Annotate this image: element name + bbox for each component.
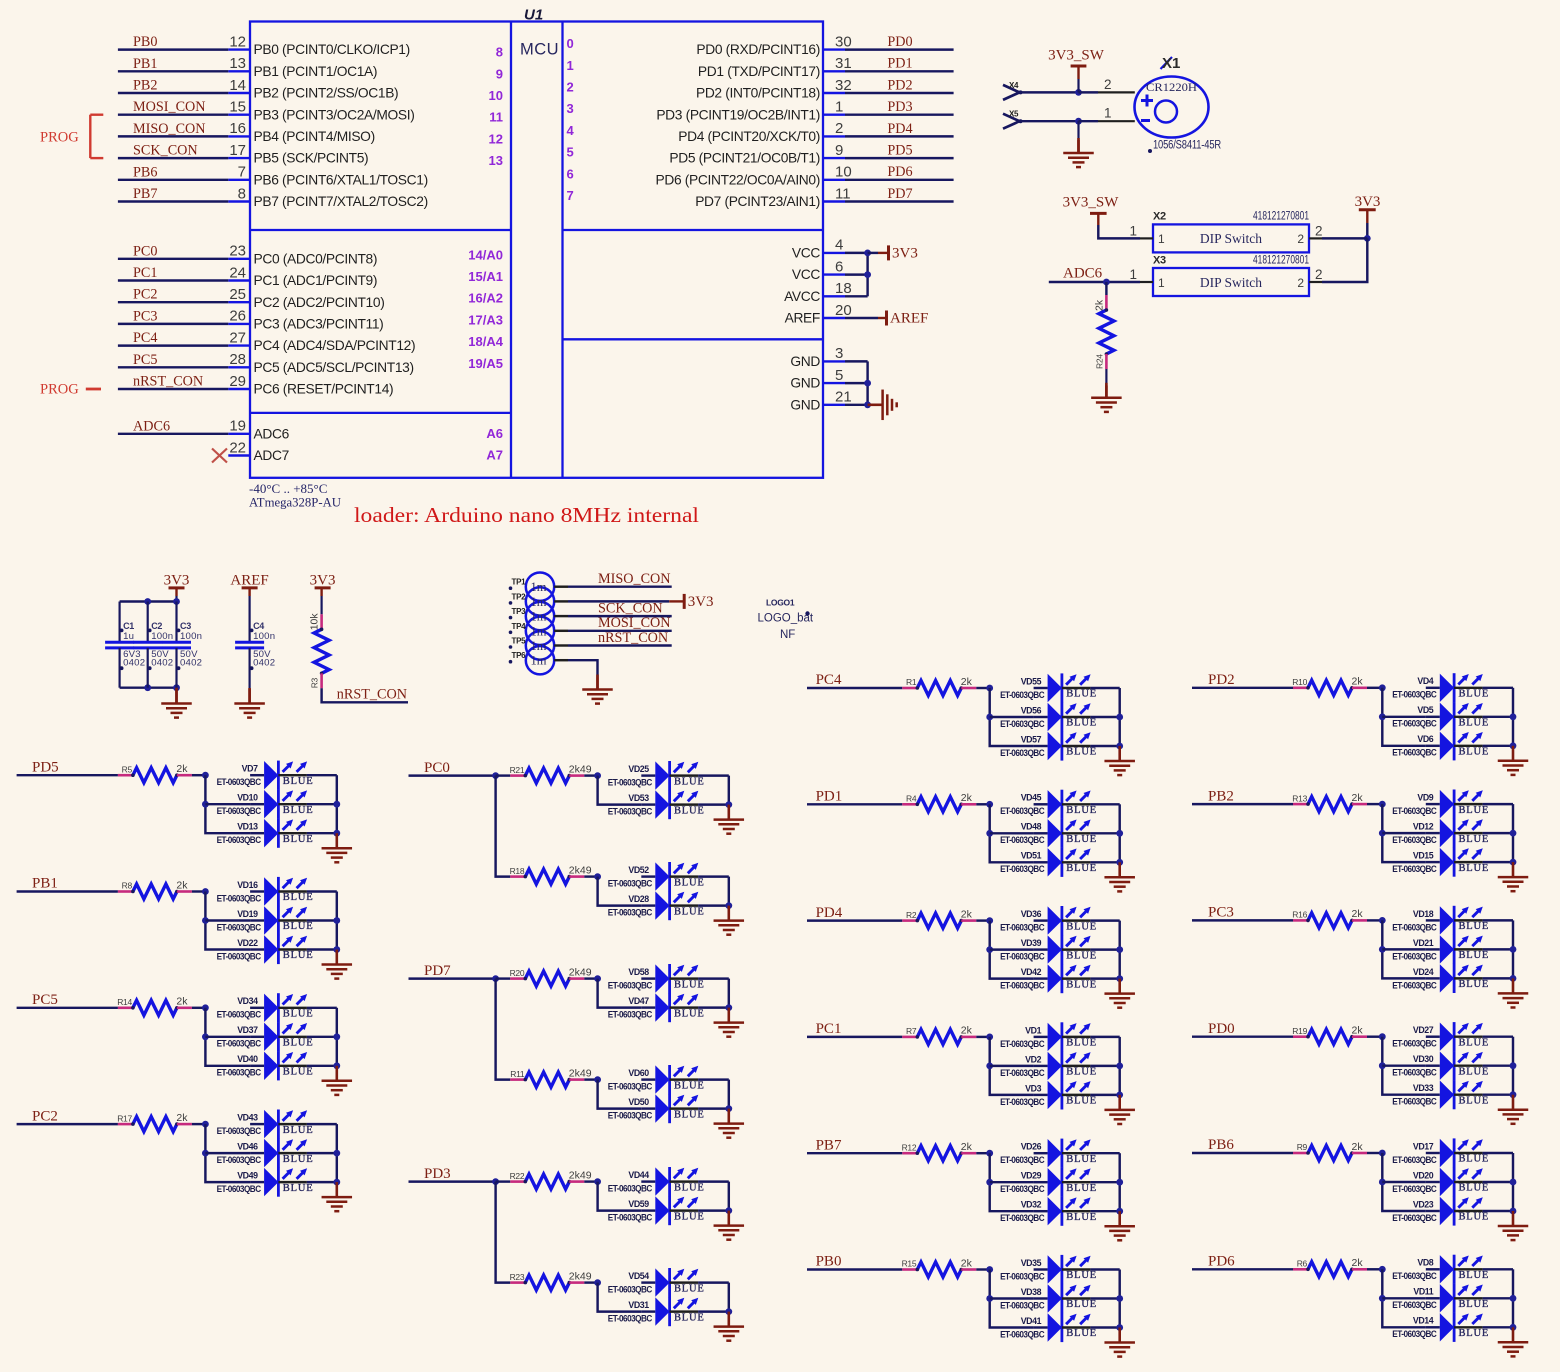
LED VD2 xyxy=(1000,1051,1097,1080)
pin stub xyxy=(1140,237,1153,239)
svg-text:PB0: PB0 xyxy=(816,1254,842,1270)
battery X1 CR1220H xyxy=(1135,77,1209,138)
wire net PB2 xyxy=(1192,803,1293,805)
svg-text:ET-0603QBC: ET-0603QBC xyxy=(608,1184,653,1194)
svg-text:ET-0603QBC: ET-0603QBC xyxy=(608,1213,653,1223)
wire xyxy=(205,919,250,921)
pin stub PC2 xyxy=(228,301,250,303)
LED VD48 xyxy=(1000,819,1097,848)
svg-text:1m: 1m xyxy=(531,654,547,668)
junction xyxy=(492,1178,499,1185)
svg-text:1u: 1u xyxy=(123,631,134,642)
wire xyxy=(1382,948,1426,950)
wire xyxy=(496,774,511,776)
wire cathode xyxy=(1062,745,1091,747)
svg-text:PD2 (INT0/PCINT18): PD2 (INT0/PCINT18) xyxy=(696,86,820,101)
svg-text:PROG: PROG xyxy=(40,382,79,398)
svg-text:PD2: PD2 xyxy=(887,77,912,93)
wire branch xyxy=(496,979,511,1080)
svg-text:R19: R19 xyxy=(1292,1026,1307,1036)
wire xyxy=(1090,948,1119,950)
svg-text:C2: C2 xyxy=(151,621,162,631)
junction xyxy=(1116,1179,1123,1186)
svg-text:ATmega328P-AU: ATmega328P-AU xyxy=(249,495,342,510)
svg-text:ET-0603QBC: ET-0603QBC xyxy=(1000,690,1045,700)
svg-text:PB1: PB1 xyxy=(133,56,157,72)
wire xyxy=(307,832,337,834)
svg-text:418121270801: 418121270801 xyxy=(1253,211,1309,223)
svg-text:VD4: VD4 xyxy=(1417,676,1433,686)
junction xyxy=(333,1150,340,1157)
wire cap bottom rail xyxy=(120,686,177,688)
wire xyxy=(990,948,1034,950)
wire net PD4 xyxy=(845,135,954,137)
LED VD56 xyxy=(1000,702,1097,731)
svg-text:VD31: VD31 xyxy=(628,1300,649,1310)
wire xyxy=(192,1123,206,1125)
wire red 3V3 xyxy=(878,252,888,254)
svg-text:VD1: VD1 xyxy=(1025,1025,1041,1035)
junction xyxy=(725,1004,732,1011)
wire xyxy=(1483,1035,1513,1037)
svg-text:3V3: 3V3 xyxy=(892,245,918,261)
wire xyxy=(1483,1297,1513,1299)
wire xyxy=(1367,687,1382,689)
junction xyxy=(1116,946,1123,953)
LED VD57 xyxy=(1000,731,1097,760)
wire cathode xyxy=(1454,948,1483,950)
wire xyxy=(1382,716,1426,718)
wire gnd stem xyxy=(248,688,251,703)
wire xyxy=(1483,832,1513,834)
test point TP1 labels xyxy=(509,578,547,595)
svg-text:loader: Arduino nano 8MHz inte: loader: Arduino nano 8MHz internal xyxy=(354,503,699,527)
svg-text:VD44: VD44 xyxy=(628,1170,649,1180)
wire cathode xyxy=(1062,716,1091,718)
svg-text:3V3_SW: 3V3_SW xyxy=(1063,195,1120,211)
svg-text:2: 2 xyxy=(835,120,843,137)
LED VD51 xyxy=(1000,848,1097,877)
wire xyxy=(1090,1210,1119,1212)
svg-text:VD58: VD58 xyxy=(628,967,649,977)
wire cathode xyxy=(1454,1093,1483,1095)
svg-text:12: 12 xyxy=(229,33,246,50)
power 3V3 R3 xyxy=(310,573,336,589)
svg-text:VD22: VD22 xyxy=(237,938,258,948)
LED VD33 xyxy=(1392,1080,1489,1109)
svg-text:ET-0603QBC: ET-0603QBC xyxy=(1392,1300,1437,1310)
wire cathode xyxy=(1062,1036,1091,1038)
svg-text:VD47: VD47 xyxy=(628,996,649,1006)
wire 3V3 stem xyxy=(320,588,322,596)
LED VD44 xyxy=(608,1167,705,1196)
LED VD39 xyxy=(1000,935,1097,964)
wire xyxy=(1090,1036,1119,1038)
wire cathode bus xyxy=(728,1182,730,1211)
wire xyxy=(584,875,597,877)
wire anode xyxy=(1034,1094,1048,1096)
svg-text:2k: 2k xyxy=(1352,908,1364,920)
svg-text:PB0 (PCINT0/CLKO/ICP1): PB0 (PCINT0/CLKO/ICP1) xyxy=(254,42,410,57)
test point TP3 labels xyxy=(509,607,547,624)
pin stub xyxy=(554,615,568,617)
junction xyxy=(1116,1295,1123,1302)
wire cathode bus xyxy=(1512,1153,1514,1211)
junction xyxy=(986,1295,993,1302)
svg-text:2k: 2k xyxy=(961,908,973,920)
svg-text:DIP Switch: DIP Switch xyxy=(1200,231,1262,246)
wire anode xyxy=(1426,1093,1440,1095)
junction xyxy=(492,975,499,982)
svg-text:2k49: 2k49 xyxy=(569,1067,592,1079)
svg-text:2k49: 2k49 xyxy=(569,864,592,876)
pin stub xyxy=(1309,281,1322,283)
wire cathode xyxy=(1062,1326,1091,1328)
svg-text:DIP Switch: DIP Switch xyxy=(1200,275,1262,290)
svg-text:MOSI_CON: MOSI_CON xyxy=(598,615,671,631)
svg-text:VD10: VD10 xyxy=(237,793,258,803)
svg-text:BLUE: BLUE xyxy=(1066,1270,1097,1281)
svg-text:17/A3: 17/A3 xyxy=(468,312,503,327)
resistor R18 xyxy=(510,864,592,884)
svg-text:PD5: PD5 xyxy=(887,143,912,159)
svg-text:PB7: PB7 xyxy=(816,1137,842,1153)
svg-text:VD33: VD33 xyxy=(1413,1083,1434,1093)
svg-text:6: 6 xyxy=(567,166,574,181)
wire xyxy=(496,977,511,979)
svg-text:X5: X5 xyxy=(1009,110,1019,119)
wire net PB2 xyxy=(118,92,228,94)
svg-text:19/A5: 19/A5 xyxy=(468,356,503,371)
svg-text:VD54: VD54 xyxy=(628,1271,649,1281)
wire xyxy=(990,716,1034,718)
junction xyxy=(1116,975,1123,982)
wire cathode bus xyxy=(1118,921,1120,979)
svg-text:LOGO1: LOGO1 xyxy=(766,597,795,607)
svg-text:1: 1 xyxy=(1104,106,1112,121)
wire nRST_CON xyxy=(568,644,672,646)
LED VD20 xyxy=(1392,1167,1489,1196)
LED VD25 xyxy=(608,761,705,790)
wire xyxy=(1483,948,1513,950)
pin stub PB0 xyxy=(228,48,250,50)
pin stub MOSI_CON xyxy=(228,113,250,115)
ground xyxy=(1104,862,1135,891)
svg-text:BLUE: BLUE xyxy=(1459,863,1490,874)
wire anode xyxy=(641,1107,655,1109)
svg-text:PD6: PD6 xyxy=(887,164,912,180)
wire anode xyxy=(250,1065,264,1067)
wire MISO_CON xyxy=(568,585,672,587)
test point TP1 xyxy=(526,573,554,601)
wire SCK_CON xyxy=(568,615,672,617)
svg-text:2: 2 xyxy=(1297,276,1304,290)
wire 3V3 stem xyxy=(175,588,177,596)
wire cathode xyxy=(1454,687,1483,689)
wire anode xyxy=(1034,1326,1048,1328)
LED VD52 xyxy=(608,862,705,891)
svg-text:AREF: AREF xyxy=(890,311,928,327)
junction xyxy=(986,685,993,692)
svg-text:BLUE: BLUE xyxy=(674,1008,705,1019)
wire GND join xyxy=(866,361,868,404)
svg-text:ADC6: ADC6 xyxy=(133,418,170,434)
ground xyxy=(1104,1095,1135,1124)
wire cathode bus xyxy=(336,775,338,833)
junction xyxy=(1379,830,1386,837)
svg-text:2k: 2k xyxy=(176,763,188,775)
svg-text:PC2: PC2 xyxy=(32,1108,58,1124)
wire xyxy=(698,875,729,877)
wire xyxy=(1366,223,1368,238)
resistor R7 xyxy=(902,1025,976,1045)
svg-text:ET-0603QBC: ET-0603QBC xyxy=(1392,835,1437,845)
svg-text:BLUE: BLUE xyxy=(283,1038,314,1049)
wire cathode xyxy=(278,1065,307,1067)
svg-text:ET-0603QBC: ET-0603QBC xyxy=(217,922,262,932)
LED VD3 xyxy=(1000,1080,1097,1109)
wire net PB0 xyxy=(807,1268,902,1270)
junction xyxy=(1116,1208,1123,1215)
svg-text:ET-0603QBC: ET-0603QBC xyxy=(608,778,653,788)
LED VD47 xyxy=(608,993,705,1022)
svg-text:2k: 2k xyxy=(961,792,973,804)
svg-text:BLUE: BLUE xyxy=(1459,950,1490,961)
svg-text:BLUE: BLUE xyxy=(1459,834,1490,845)
wire anode xyxy=(250,1123,264,1125)
resistor R9 xyxy=(1293,1141,1367,1161)
wire xyxy=(976,919,989,921)
LED VD60 xyxy=(608,1065,705,1094)
ground xyxy=(1498,1327,1529,1356)
svg-text:ET-0603QBC: ET-0603QBC xyxy=(217,1126,262,1136)
wire cathode xyxy=(278,1007,307,1009)
wire anode xyxy=(1426,948,1440,950)
svg-text:ET-0603QBC: ET-0603QBC xyxy=(1392,1184,1437,1194)
wire branch xyxy=(205,1124,250,1182)
svg-text:PD1 (TXD/PCINT17): PD1 (TXD/PCINT17) xyxy=(698,64,820,79)
wire xyxy=(1105,282,1107,295)
test point TP4 labels xyxy=(509,622,547,639)
ground xyxy=(322,1182,353,1211)
junction xyxy=(202,1121,209,1128)
wire xyxy=(205,803,250,805)
junction xyxy=(1116,714,1123,721)
wire branch xyxy=(205,892,250,950)
svg-text:BLUE: BLUE xyxy=(1459,1154,1490,1165)
wire cathode xyxy=(1454,1210,1483,1212)
svg-text:VD27: VD27 xyxy=(1413,1025,1434,1035)
junction xyxy=(202,1033,209,1040)
svg-text:PC1: PC1 xyxy=(816,1021,842,1037)
svg-text:ADC6: ADC6 xyxy=(1063,266,1103,282)
resistor R14 xyxy=(117,996,192,1016)
LED VD10 xyxy=(217,790,314,819)
svg-text:418121270801: 418121270801 xyxy=(1253,255,1309,267)
junction xyxy=(333,830,340,837)
LED VD35 xyxy=(1000,1255,1097,1284)
svg-text:BLUE: BLUE xyxy=(1066,1154,1097,1165)
svg-text:BLUE: BLUE xyxy=(1066,863,1097,874)
wire cathode xyxy=(1454,803,1483,805)
wire xyxy=(584,1281,597,1283)
svg-text:1m: 1m xyxy=(531,580,547,594)
junction xyxy=(1364,235,1371,242)
svg-text:9: 9 xyxy=(496,66,503,81)
ground xyxy=(1498,746,1529,775)
power 3V3_SW DIP xyxy=(1063,195,1120,225)
svg-text:1: 1 xyxy=(1158,232,1165,246)
test point TP2 labels xyxy=(509,592,547,609)
svg-text:ET-0603QBC: ET-0603QBC xyxy=(1000,1329,1045,1339)
svg-text:2k: 2k xyxy=(1352,676,1364,688)
svg-text:PD3: PD3 xyxy=(887,99,912,115)
svg-text:BLUE: BLUE xyxy=(1066,1183,1097,1194)
svg-text:ET-0603QBC: ET-0603QBC xyxy=(1392,1155,1437,1165)
wire net PD0 xyxy=(845,48,954,50)
wire branch xyxy=(598,1080,642,1109)
test point TP5 labels xyxy=(509,637,547,654)
junction xyxy=(1379,1150,1386,1157)
wire TP2 3V3 xyxy=(568,600,669,602)
wire xyxy=(307,1123,337,1125)
wire xyxy=(1090,861,1119,863)
svg-text:A6: A6 xyxy=(486,426,503,441)
wire anode xyxy=(641,1310,655,1312)
LED VD40 xyxy=(217,1051,314,1080)
svg-text:VD20: VD20 xyxy=(1413,1170,1434,1180)
wire cathode xyxy=(278,1181,307,1183)
wire xyxy=(192,1007,206,1009)
wire anode xyxy=(1034,745,1048,747)
pin stub PD0 xyxy=(823,48,845,50)
wire xyxy=(1483,1152,1513,1154)
junction xyxy=(1116,1324,1123,1331)
junction xyxy=(1510,946,1517,953)
junction xyxy=(1510,1208,1517,1215)
wire GND xyxy=(845,404,868,406)
svg-text:VCC: VCC xyxy=(792,246,820,261)
junction xyxy=(594,1178,601,1185)
wire net PD2 xyxy=(845,92,954,94)
wire cathode bus xyxy=(1118,804,1120,862)
svg-text:8: 8 xyxy=(238,185,246,202)
svg-text:NF: NF xyxy=(780,629,795,641)
svg-text:PC3: PC3 xyxy=(1208,905,1234,921)
svg-text:PC2: PC2 xyxy=(133,287,157,303)
wire xyxy=(584,1180,597,1182)
svg-text:15: 15 xyxy=(229,99,246,116)
wire cathode xyxy=(1062,1210,1091,1212)
svg-text:18/A4: 18/A4 xyxy=(468,334,503,349)
pin stub GND xyxy=(823,360,845,362)
wire net PD1 xyxy=(807,803,902,805)
svg-text:PD0: PD0 xyxy=(1208,1021,1235,1037)
svg-text:21: 21 xyxy=(835,389,852,406)
LED VD36 xyxy=(1000,906,1097,935)
LED VD1 xyxy=(1000,1022,1097,1051)
wire anode xyxy=(1426,1210,1440,1212)
svg-text:ET-0603QBC: ET-0603QBC xyxy=(1392,1329,1437,1339)
test point TP2 xyxy=(526,587,554,615)
wire net PC0 xyxy=(118,258,228,260)
ground TP6 xyxy=(582,675,613,704)
junction xyxy=(725,1207,732,1214)
svg-text:3: 3 xyxy=(835,345,843,362)
wire anode xyxy=(641,904,655,906)
wire xyxy=(698,803,729,805)
svg-text:VD34: VD34 xyxy=(237,996,258,1006)
svg-text:3V3: 3V3 xyxy=(310,573,336,589)
svg-text:2k: 2k xyxy=(176,879,188,891)
no-connect cross ADC7 xyxy=(212,449,227,463)
svg-text:100n: 100n xyxy=(253,631,275,642)
svg-text:R9: R9 xyxy=(1297,1142,1308,1152)
svg-text:VD21: VD21 xyxy=(1413,938,1434,948)
LED VD26 xyxy=(1000,1139,1097,1168)
pin stub nRST_CON xyxy=(228,388,250,390)
svg-text:1m: 1m xyxy=(531,624,547,638)
svg-text:2k: 2k xyxy=(176,996,188,1008)
wire xyxy=(1367,1268,1382,1270)
svg-text:PD7: PD7 xyxy=(887,186,912,202)
svg-text:CR1220H: CR1220H xyxy=(1146,80,1197,94)
resistor R21 xyxy=(510,763,592,783)
wire net PD7 xyxy=(845,200,954,202)
svg-text:PC5: PC5 xyxy=(32,992,58,1008)
svg-text:PC1 (ADC1/PCINT9): PC1 (ADC1/PCINT9) xyxy=(254,273,378,288)
svg-text:BLUE: BLUE xyxy=(1066,1067,1097,1078)
svg-text:ADC6: ADC6 xyxy=(254,426,290,441)
svg-text:1056/S8411-45R: 1056/S8411-45R xyxy=(1153,140,1221,152)
wire branch xyxy=(990,1153,1034,1211)
svg-text:BLUE: BLUE xyxy=(1066,1212,1097,1223)
LED VD21 xyxy=(1392,935,1489,964)
resistor R8 xyxy=(118,879,192,899)
wire cathode xyxy=(278,919,307,921)
wire anode xyxy=(1426,1035,1440,1037)
wire xyxy=(1483,1210,1513,1212)
svg-text:GND: GND xyxy=(790,397,820,412)
wire xyxy=(1090,1181,1119,1183)
wire cathode xyxy=(1062,1065,1091,1067)
svg-text:ET-0603QBC: ET-0603QBC xyxy=(1000,923,1045,933)
wire cathode xyxy=(278,890,307,892)
wire xyxy=(307,948,337,950)
svg-text:PC0 (ADC0/PCINT8): PC0 (ADC0/PCINT8) xyxy=(254,251,378,266)
svg-text:TP4: TP4 xyxy=(512,622,527,631)
svg-text:R11: R11 xyxy=(510,1069,525,1079)
wire anode xyxy=(1034,687,1048,689)
wire VCC xyxy=(845,252,868,254)
pin stub GND xyxy=(823,382,845,384)
wire net PC3 xyxy=(1192,919,1293,921)
wire cathode bus xyxy=(336,1124,338,1182)
svg-text:ET-0603QBC: ET-0603QBC xyxy=(217,777,262,787)
wire xyxy=(1367,803,1382,805)
wire xyxy=(698,1209,729,1211)
svg-text:ET-0603QBC: ET-0603QBC xyxy=(608,1314,653,1324)
svg-text:VD19: VD19 xyxy=(237,909,258,919)
svg-text:9: 9 xyxy=(835,142,843,159)
wire xyxy=(1483,861,1513,863)
wire anode xyxy=(1034,1297,1048,1299)
svg-text:PD4: PD4 xyxy=(816,905,843,921)
junction xyxy=(1075,118,1082,125)
wire net PB7 xyxy=(807,1152,902,1154)
wire anode xyxy=(641,875,655,877)
svg-text:VD43: VD43 xyxy=(237,1113,258,1123)
